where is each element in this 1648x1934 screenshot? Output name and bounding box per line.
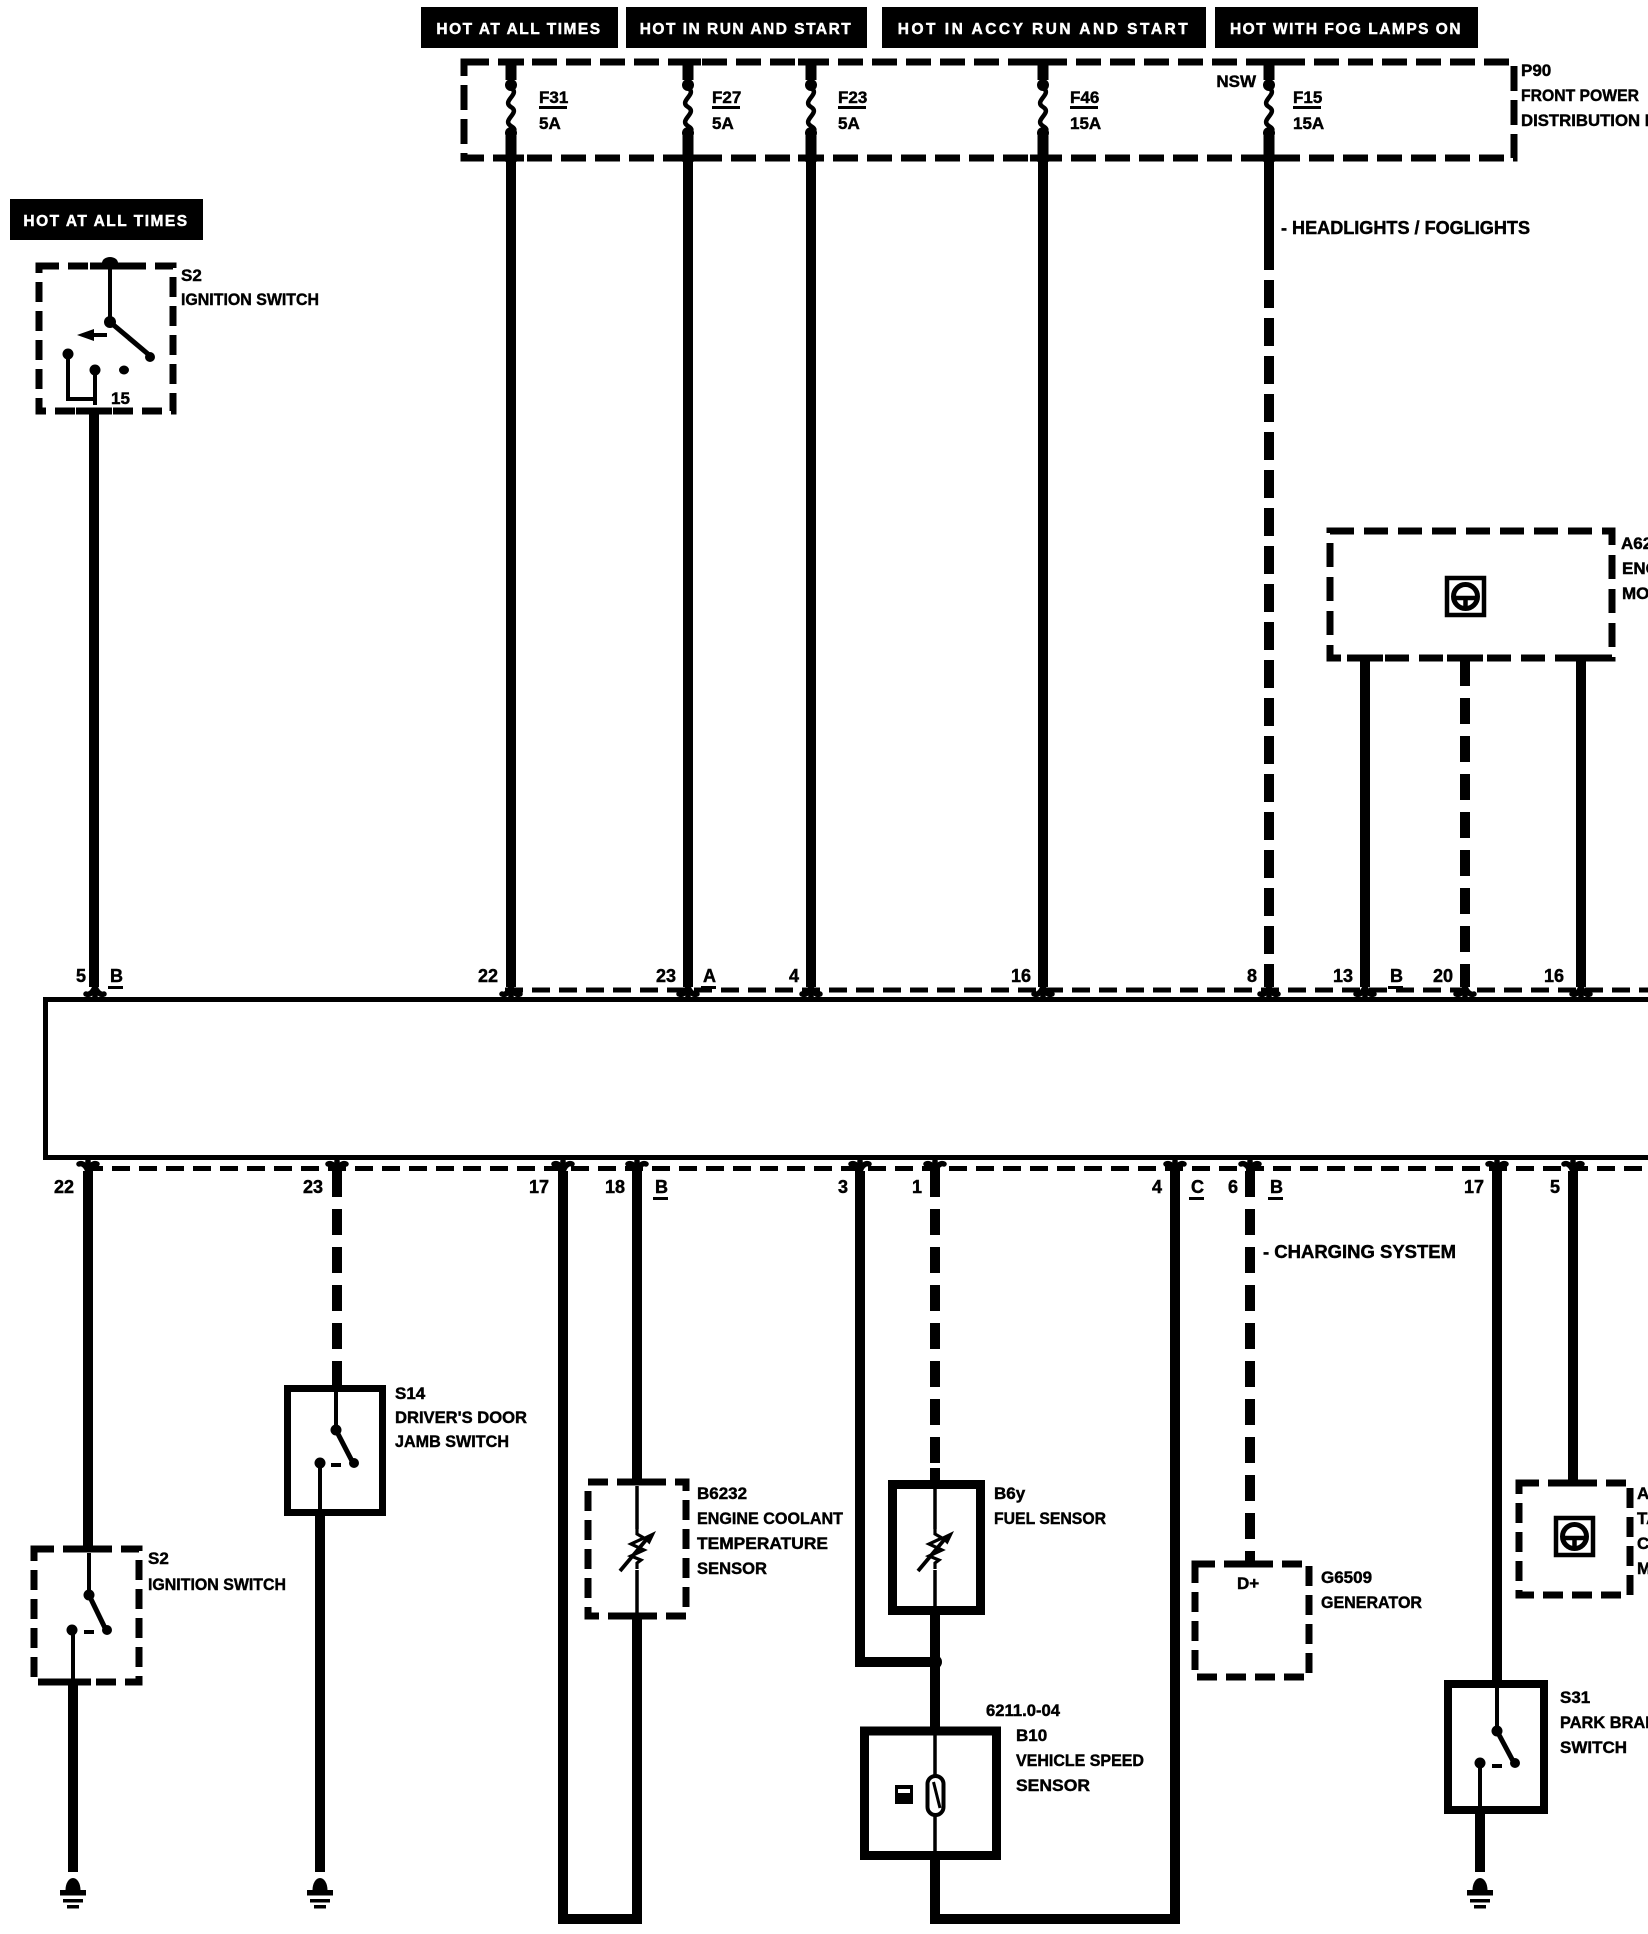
fuel sensor B6y bbox=[893, 1468, 981, 1612]
terminal pin 4 C (cluster bottom) bbox=[1166, 1161, 1184, 1175]
svg-text:5: 5 bbox=[1550, 1177, 1560, 1197]
svg-text:HOT WITH FOG LAMPS ON: HOT WITH FOG LAMPS ON bbox=[1230, 21, 1462, 38]
label module (bottom right, clipped) bbox=[1637, 1484, 1648, 1578]
header HOT IN ACCY RUN AND START bbox=[882, 7, 1206, 48]
svg-text:PARK BRAKE: PARK BRAKE bbox=[1560, 1713, 1648, 1732]
svg-text:HOT AT ALL TIMES: HOT AT ALL TIMES bbox=[436, 21, 601, 38]
svg-text:B6y: B6y bbox=[994, 1484, 1026, 1503]
svg-text:FRONT POWER: FRONT POWER bbox=[1521, 86, 1639, 105]
park brake switch S31 bbox=[1448, 1684, 1544, 1812]
vehicle speed sensor B10 bbox=[865, 1731, 997, 1856]
terminal pin 22 (cluster bottom) bbox=[79, 1161, 97, 1175]
svg-text:15: 15 bbox=[111, 389, 130, 408]
svg-text:- HEADLIGHTS / FOGLIGHTS: - HEADLIGHTS / FOGLIGHTS bbox=[1281, 218, 1530, 238]
svg-text:B6232: B6232 bbox=[697, 1484, 747, 1503]
label 6211.0-04 B10 VEHICLE SPEED SENSOR bbox=[986, 1701, 1144, 1795]
svg-text:A62: A62 bbox=[1637, 1484, 1648, 1503]
svg-text:S14: S14 bbox=[395, 1384, 426, 1403]
wire S14 to ground bbox=[315, 1516, 325, 1872]
wire pin 3 down and right bbox=[855, 1171, 865, 1663]
wire S31 to ground bbox=[1475, 1814, 1485, 1872]
svg-text:S2: S2 bbox=[148, 1549, 169, 1568]
label B6232 ENGINE COOLANT TEMPERATURE SENSOR bbox=[697, 1484, 844, 1578]
svg-text:JAMB SWITCH: JAMB SWITCH bbox=[395, 1432, 509, 1451]
svg-text:B: B bbox=[1390, 966, 1403, 986]
wire B6232 down to U bbox=[632, 1616, 642, 1924]
module (bottom right) bbox=[1519, 1480, 1630, 1596]
svg-text:MOD: MOD bbox=[1622, 584, 1648, 603]
svg-text:15A: 15A bbox=[1070, 114, 1101, 133]
svg-text:HOT IN ACCY RUN AND START: HOT IN ACCY RUN AND START bbox=[898, 21, 1190, 38]
svg-text:D+: D+ bbox=[1237, 1574, 1259, 1593]
terminal pin 4 (cluster top) bbox=[802, 983, 820, 997]
terminal pin 13 B (cluster top) bbox=[1356, 983, 1374, 997]
header HOT AT ALL TIMES (top) bbox=[421, 7, 618, 48]
svg-text:23: 23 bbox=[303, 1177, 323, 1197]
svg-text:B: B bbox=[110, 966, 123, 986]
label S14 DRIVER'S DOOR JAMB SWITCH bbox=[395, 1384, 527, 1451]
label A6 module bbox=[1621, 534, 1648, 603]
svg-text:3: 3 bbox=[838, 1177, 848, 1197]
terminal pin 18 B (cluster bottom) bbox=[628, 1161, 646, 1175]
svg-text:SWITCH: SWITCH bbox=[1560, 1738, 1627, 1757]
svg-text:SENSOR: SENSOR bbox=[1016, 1776, 1090, 1795]
terminal pin 23 A (cluster top) bbox=[679, 983, 697, 997]
svg-text:18: 18 bbox=[605, 1177, 625, 1197]
svg-text:B: B bbox=[655, 1177, 668, 1197]
svg-text:5A: 5A bbox=[838, 114, 860, 133]
terminal pin 3 (cluster bottom) bbox=[851, 1161, 869, 1175]
cluster top pin number labels bbox=[76, 966, 1564, 986]
svg-text:DRIVER'S DOOR: DRIVER'S DOOR bbox=[395, 1408, 527, 1427]
svg-text:S2: S2 bbox=[181, 266, 202, 285]
svg-text:5A: 5A bbox=[539, 114, 561, 133]
connector dashed line above cluster bbox=[505, 988, 1648, 993]
wire pin 17 to park brake switch bbox=[1492, 1171, 1502, 1681]
svg-text:F27: F27 bbox=[712, 88, 741, 107]
svg-text:20: 20 bbox=[1433, 966, 1453, 986]
svg-text:NSW: NSW bbox=[1216, 72, 1257, 91]
fuse box P90 front power distribution box bbox=[464, 59, 1514, 162]
terminal pin 22 (cluster top) bbox=[502, 983, 520, 997]
svg-text:IGNITION SWITCH: IGNITION SWITCH bbox=[181, 290, 319, 309]
svg-text:4: 4 bbox=[1152, 1177, 1162, 1197]
svg-text:HOT IN RUN AND START: HOT IN RUN AND START bbox=[640, 21, 853, 38]
wire F23 to cluster pin 4 bbox=[806, 162, 816, 987]
label G6509 GENERATOR bbox=[1321, 1568, 1422, 1612]
svg-text:F46: F46 bbox=[1070, 88, 1099, 107]
wire F27 to cluster pin 23 bbox=[683, 162, 693, 987]
svg-text:P90: P90 bbox=[1521, 61, 1551, 80]
wire F15 dashed to cluster pin 8 bbox=[1264, 242, 1274, 987]
terminal pin 23 (cluster bottom) bbox=[328, 1161, 346, 1175]
svg-text:4: 4 bbox=[789, 966, 799, 986]
generator G6509 bbox=[1195, 1561, 1309, 1678]
svg-text:FUEL SENSOR: FUEL SENSOR bbox=[994, 1509, 1106, 1528]
ground under S2 bbox=[60, 1878, 86, 1909]
door jamb switch S14 bbox=[288, 1389, 383, 1515]
header HOT AT ALL TIMES (left) bbox=[10, 199, 203, 240]
wire pin 18 to B6232 bbox=[632, 1171, 642, 1482]
header HOT WITH FOG LAMPS ON bbox=[1215, 7, 1478, 48]
svg-text:8: 8 bbox=[1247, 966, 1257, 986]
svg-text:6211.0-04: 6211.0-04 bbox=[986, 1701, 1061, 1720]
svg-text:15A: 15A bbox=[1293, 114, 1324, 133]
wire bottom U joining 17 and 18 bbox=[558, 1914, 642, 1924]
svg-text:C: C bbox=[1191, 1177, 1204, 1197]
svg-text:ENG: ENG bbox=[1622, 559, 1648, 578]
svg-text:B10: B10 bbox=[1016, 1726, 1047, 1745]
coolant temperature sensor B6232 bbox=[588, 1479, 686, 1620]
svg-text:IGNITION SWITCH: IGNITION SWITCH bbox=[148, 1575, 286, 1594]
wire B10 down right and up to pin 4 bbox=[930, 1856, 940, 1924]
terminal pin 5 B (cluster top) bbox=[86, 983, 104, 997]
terminal pin 16 right (cluster top) bbox=[1572, 983, 1590, 997]
wire pin 17 down bbox=[558, 1171, 568, 1919]
terminal pin 17 right (cluster bottom) bbox=[1488, 1161, 1506, 1175]
module A6 (top right) bbox=[1330, 531, 1612, 662]
wire pin 6 to generator (dashed) bbox=[1245, 1171, 1255, 1564]
terminal pin 16 (cluster top) bbox=[1034, 983, 1052, 997]
svg-text:MO: MO bbox=[1637, 1559, 1648, 1578]
terminal pin 5 (cluster bottom) bbox=[1564, 1161, 1582, 1175]
wire pin 22 to ignition switch S2 (lower) bbox=[83, 1171, 93, 1549]
wire junction to B10 bbox=[930, 1667, 940, 1727]
wire A6 to cluster pin 13 bbox=[1360, 658, 1370, 987]
svg-text:- CHARGING SYSTEM: - CHARGING SYSTEM bbox=[1263, 1242, 1456, 1262]
svg-text:A62: A62 bbox=[1621, 534, 1648, 553]
svg-text:ENGINE COOLANT: ENGINE COOLANT bbox=[697, 1509, 844, 1528]
wire F15 solid stub bbox=[1264, 162, 1274, 242]
wire B6y to junction bbox=[930, 1615, 940, 1659]
wire pin 23 to S14 (dashed) bbox=[332, 1171, 342, 1385]
svg-text:GENERATOR: GENERATOR bbox=[1321, 1593, 1422, 1612]
svg-text:22: 22 bbox=[478, 966, 498, 986]
svg-text:F31: F31 bbox=[539, 88, 568, 107]
junction node bbox=[928, 1655, 942, 1669]
svg-text:HOT AT ALL TIMES: HOT AT ALL TIMES bbox=[23, 213, 188, 230]
terminal pin 20 (cluster top) bbox=[1456, 983, 1474, 997]
svg-text:17: 17 bbox=[529, 1177, 549, 1197]
wire pin 1 to fuel sensor (dashed) bbox=[930, 1171, 940, 1480]
header HOT IN RUN AND START bbox=[626, 7, 867, 48]
ignition switch S2 (top) bbox=[39, 257, 173, 415]
terminal pin 1 (cluster bottom) bbox=[926, 1161, 944, 1175]
svg-text:22: 22 bbox=[54, 1177, 74, 1197]
cluster bottom pin number labels bbox=[54, 1177, 1560, 1197]
svg-text:TEMPERATURE: TEMPERATURE bbox=[697, 1534, 828, 1553]
terminal pin 8 (cluster top) bbox=[1260, 983, 1278, 997]
terminal pin 17 (cluster bottom) bbox=[554, 1161, 572, 1175]
label S2 IGNITION SWITCH (lower) bbox=[148, 1549, 286, 1594]
svg-text:CL: CL bbox=[1637, 1534, 1648, 1553]
svg-text:5: 5 bbox=[76, 966, 86, 986]
svg-text:SENSOR: SENSOR bbox=[697, 1559, 767, 1578]
fuse F15 15A bbox=[1263, 62, 1324, 162]
fuse F46 15A bbox=[1037, 62, 1101, 162]
label B6y FUEL SENSOR bbox=[994, 1484, 1106, 1528]
wire F31 to cluster pin 22 bbox=[506, 162, 516, 987]
wire S2 lower to ground bbox=[68, 1682, 78, 1872]
svg-text:VEHICLE SPEED: VEHICLE SPEED bbox=[1016, 1751, 1144, 1770]
svg-text:DISTRIBUTION BOX: DISTRIBUTION BOX bbox=[1521, 111, 1648, 130]
svg-text:16: 16 bbox=[1011, 966, 1031, 986]
svg-text:F23: F23 bbox=[838, 88, 867, 107]
svg-text:5A: 5A bbox=[712, 114, 734, 133]
svg-text:6: 6 bbox=[1228, 1177, 1238, 1197]
instrument cluster body bbox=[46, 1000, 1648, 1158]
fuse F23 5A bbox=[805, 62, 867, 162]
ground under S31 bbox=[1467, 1878, 1493, 1909]
wire F46 to cluster pin 16 bbox=[1038, 162, 1048, 987]
svg-text:B: B bbox=[1270, 1177, 1283, 1197]
wire S2 to cluster pin 5 bbox=[89, 411, 99, 987]
svg-text:F15: F15 bbox=[1293, 88, 1322, 107]
connector dashed line below cluster bbox=[85, 1166, 1648, 1171]
ground under S14 bbox=[307, 1878, 333, 1909]
label S2 IGNITION SWITCH (top) bbox=[181, 266, 319, 309]
svg-text:23: 23 bbox=[656, 966, 676, 986]
svg-text:13: 13 bbox=[1333, 966, 1353, 986]
svg-text:G6509: G6509 bbox=[1321, 1568, 1372, 1587]
fuse F31 5A bbox=[505, 62, 568, 162]
wire A6 to cluster pin 16 bbox=[1576, 658, 1586, 987]
svg-text:16: 16 bbox=[1544, 966, 1564, 986]
svg-text:1: 1 bbox=[912, 1177, 922, 1197]
label P90 FRONT POWER DISTRIBUTION BOX bbox=[1521, 61, 1648, 130]
fuse F27 5A bbox=[682, 62, 741, 162]
label S31 PARK BRAKE SWITCH bbox=[1560, 1688, 1648, 1757]
svg-text:A: A bbox=[703, 966, 716, 986]
svg-text:17: 17 bbox=[1464, 1177, 1484, 1197]
svg-text:S31: S31 bbox=[1560, 1688, 1590, 1707]
ignition switch S2 (lower) bbox=[34, 1546, 139, 1686]
terminal pin 6 B (cluster bottom) bbox=[1241, 1161, 1259, 1175]
svg-text:TA: TA bbox=[1637, 1509, 1648, 1528]
wire A6 to cluster pin 20 (dashed) bbox=[1460, 660, 1470, 987]
wire pin 5 to module (bottom right) bbox=[1568, 1171, 1578, 1483]
